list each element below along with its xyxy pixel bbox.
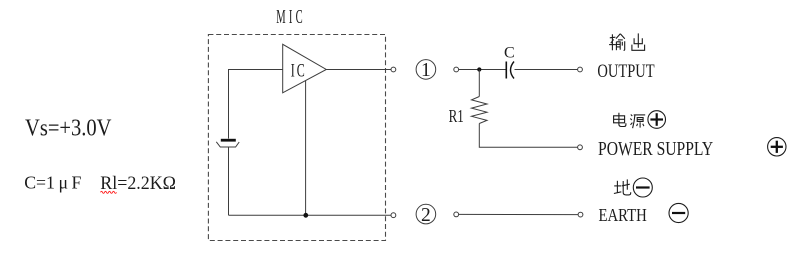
terminal OUTPUT [578,67,583,72]
label di (earth CN) [614,179,631,195]
polarity mark minus [633,178,652,197]
terminal pin 2 (inside) [391,213,396,218]
wire [459,213,579,215]
wire [229,70,284,139]
wire [459,69,506,71]
svg-text:MIC: MIC [276,6,306,28]
wire [326,69,391,71]
terminal pin 1 (inside) [391,67,396,72]
polarity mark minus (external) [669,203,688,222]
terminal EARTH [578,212,583,217]
electret capsule M1 [216,140,239,147]
microphone enclosure (dashed) [208,35,385,241]
node 1 [416,60,436,82]
svg-text:1: 1 [421,60,431,81]
svg-text:IC: IC [291,61,307,82]
polarity mark plus [648,111,666,129]
wire [229,214,392,216]
label dianyuan (power CN) [614,113,646,128]
svg-text:R1: R1 [449,106,464,126]
wire [515,69,579,71]
svg-text:C: C [504,44,515,61]
junction [477,67,481,71]
junction [303,213,308,218]
resistor R1 [472,97,488,124]
capacitor C [506,62,514,79]
svg-text:2: 2 [421,205,431,226]
label shuchu (output CN) [609,33,645,50]
wire [228,147,230,215]
svg-text:Vs=+3.0V: Vs=+3.0V [25,116,112,142]
wire [305,81,307,216]
svg-text:OUTPUT: OUTPUT [597,61,654,82]
svg-text:EARTH: EARTH [599,205,647,225]
wire [479,124,578,148]
wire [478,70,480,97]
terminal [454,212,459,217]
terminal POWER SUPPLY [578,145,583,150]
op-amp U1 (IC buffer) [283,44,327,93]
spellcheck squiggle [101,191,117,193]
svg-text:POWER SUPPLY: POWER SUPPLY [598,138,713,160]
node 2 [416,204,436,226]
svg-text:C=1 μ F: C=1 μ F [24,173,81,193]
svg-text:Rl=2.2KΩ: Rl=2.2KΩ [100,173,176,194]
polarity mark plus (external) [768,138,786,156]
terminal [454,67,459,72]
